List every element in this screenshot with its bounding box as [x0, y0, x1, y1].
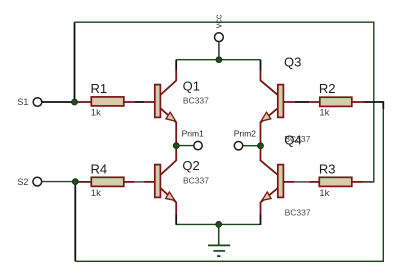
svg-text:Prim2: Prim2	[234, 129, 256, 139]
svg-text:1k: 1k	[91, 108, 101, 119]
svg-text:BC337: BC337	[183, 95, 209, 105]
svg-text:R4: R4	[91, 161, 108, 176]
wire Q2 emitter stub (black)	[175, 215, 177, 225]
terminal S2	[17, 177, 41, 187]
wire vcc terminal pin	[218, 42, 220, 60]
svg-text:Q1: Q1	[183, 79, 200, 94]
node gnd junction	[216, 221, 222, 227]
transistor Q4	[261, 133, 311, 218]
resistor R2	[284, 81, 364, 119]
terminal Prim1	[182, 129, 204, 150]
terminal Prim2	[234, 129, 256, 150]
wire Q4 emitter stub (black)	[260, 215, 262, 225]
svg-text:1k: 1k	[91, 188, 101, 199]
wire bottom rail (S2 net to R2)	[75, 109, 383, 261]
node Prim2 junction	[258, 143, 264, 149]
svg-text:R2: R2	[319, 81, 336, 96]
transistor Q2	[155, 146, 209, 215]
wire inner top vcc rail	[176, 59, 260, 61]
svg-text:BC337: BC337	[285, 208, 311, 218]
wire Q1 collector stub (black)	[175, 60, 177, 71]
svg-text:R3: R3	[319, 161, 336, 176]
svg-text:S1: S1	[17, 97, 28, 107]
wire Q3 collector stub (black)	[260, 60, 262, 71]
svg-text:Q3: Q3	[284, 54, 301, 69]
svg-text:BC337: BC337	[183, 176, 209, 186]
node Prim1 junction	[173, 143, 179, 149]
svg-text:R1: R1	[91, 81, 108, 96]
transistor Q1	[155, 70, 209, 146]
resistor R1	[76, 81, 155, 119]
svg-text:Q2: Q2	[182, 158, 199, 173]
terminal S1	[17, 97, 41, 107]
svg-text:1k: 1k	[319, 188, 329, 199]
transistor Q3	[261, 54, 311, 145]
wire S1 pin and left upper vertical (black)	[42, 22, 75, 102]
resistor R3	[284, 161, 364, 199]
wire S2 pin (gray-green)	[42, 181, 75, 183]
svg-text:1k: 1k	[319, 108, 329, 119]
svg-text:Q4: Q4	[284, 133, 301, 148]
wire top rail (S1 net to R3)	[75, 22, 374, 182]
ground	[208, 224, 230, 256]
wire Prim2 pin	[243, 145, 261, 147]
svg-text:vcc: vcc	[213, 14, 223, 28]
node vcc junction	[216, 57, 222, 63]
wire S2 left lower vertical (black)	[74, 182, 76, 262]
svg-text:S2: S2	[17, 177, 28, 187]
wire R2 to right vertical (black segment)	[363, 102, 383, 109]
wire inner bottom gnd rail	[176, 223, 260, 225]
terminal vcc	[213, 14, 223, 41]
resistor R4	[76, 161, 155, 199]
svg-text:Prim1: Prim1	[182, 129, 204, 139]
wire R3 right to top rail net	[363, 181, 374, 183]
wire Prim1 pin	[176, 145, 194, 147]
node S1 junction	[72, 99, 78, 105]
node S2 junction	[72, 179, 78, 185]
